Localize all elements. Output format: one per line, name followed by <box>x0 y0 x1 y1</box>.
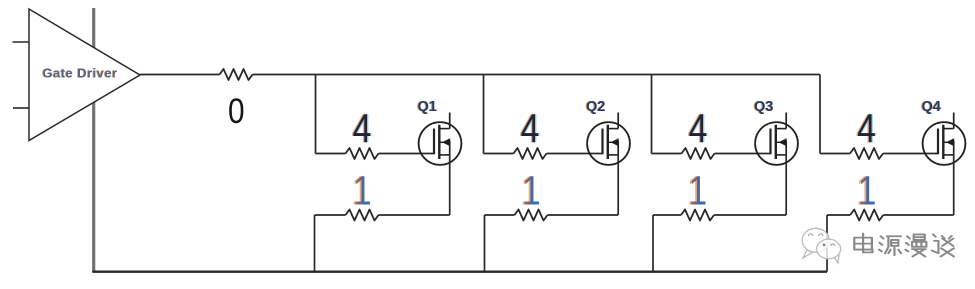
svg-text:1: 1 <box>689 167 708 213</box>
svg-text:1: 1 <box>522 167 541 213</box>
svg-text:4: 4 <box>353 105 372 151</box>
svg-text:Gate Driver: Gate Driver <box>42 66 117 81</box>
svg-text:Q4: Q4 <box>922 99 941 115</box>
svg-text:4: 4 <box>689 105 708 151</box>
svg-text:Q3: Q3 <box>754 99 773 115</box>
svg-text:1: 1 <box>353 167 372 213</box>
svg-text:4: 4 <box>521 105 540 151</box>
svg-text:0: 0 <box>228 92 245 131</box>
svg-text:Q1: Q1 <box>418 99 437 115</box>
svg-text:4: 4 <box>857 105 876 151</box>
svg-text:Q2: Q2 <box>586 99 605 115</box>
svg-text:1: 1 <box>858 167 877 213</box>
